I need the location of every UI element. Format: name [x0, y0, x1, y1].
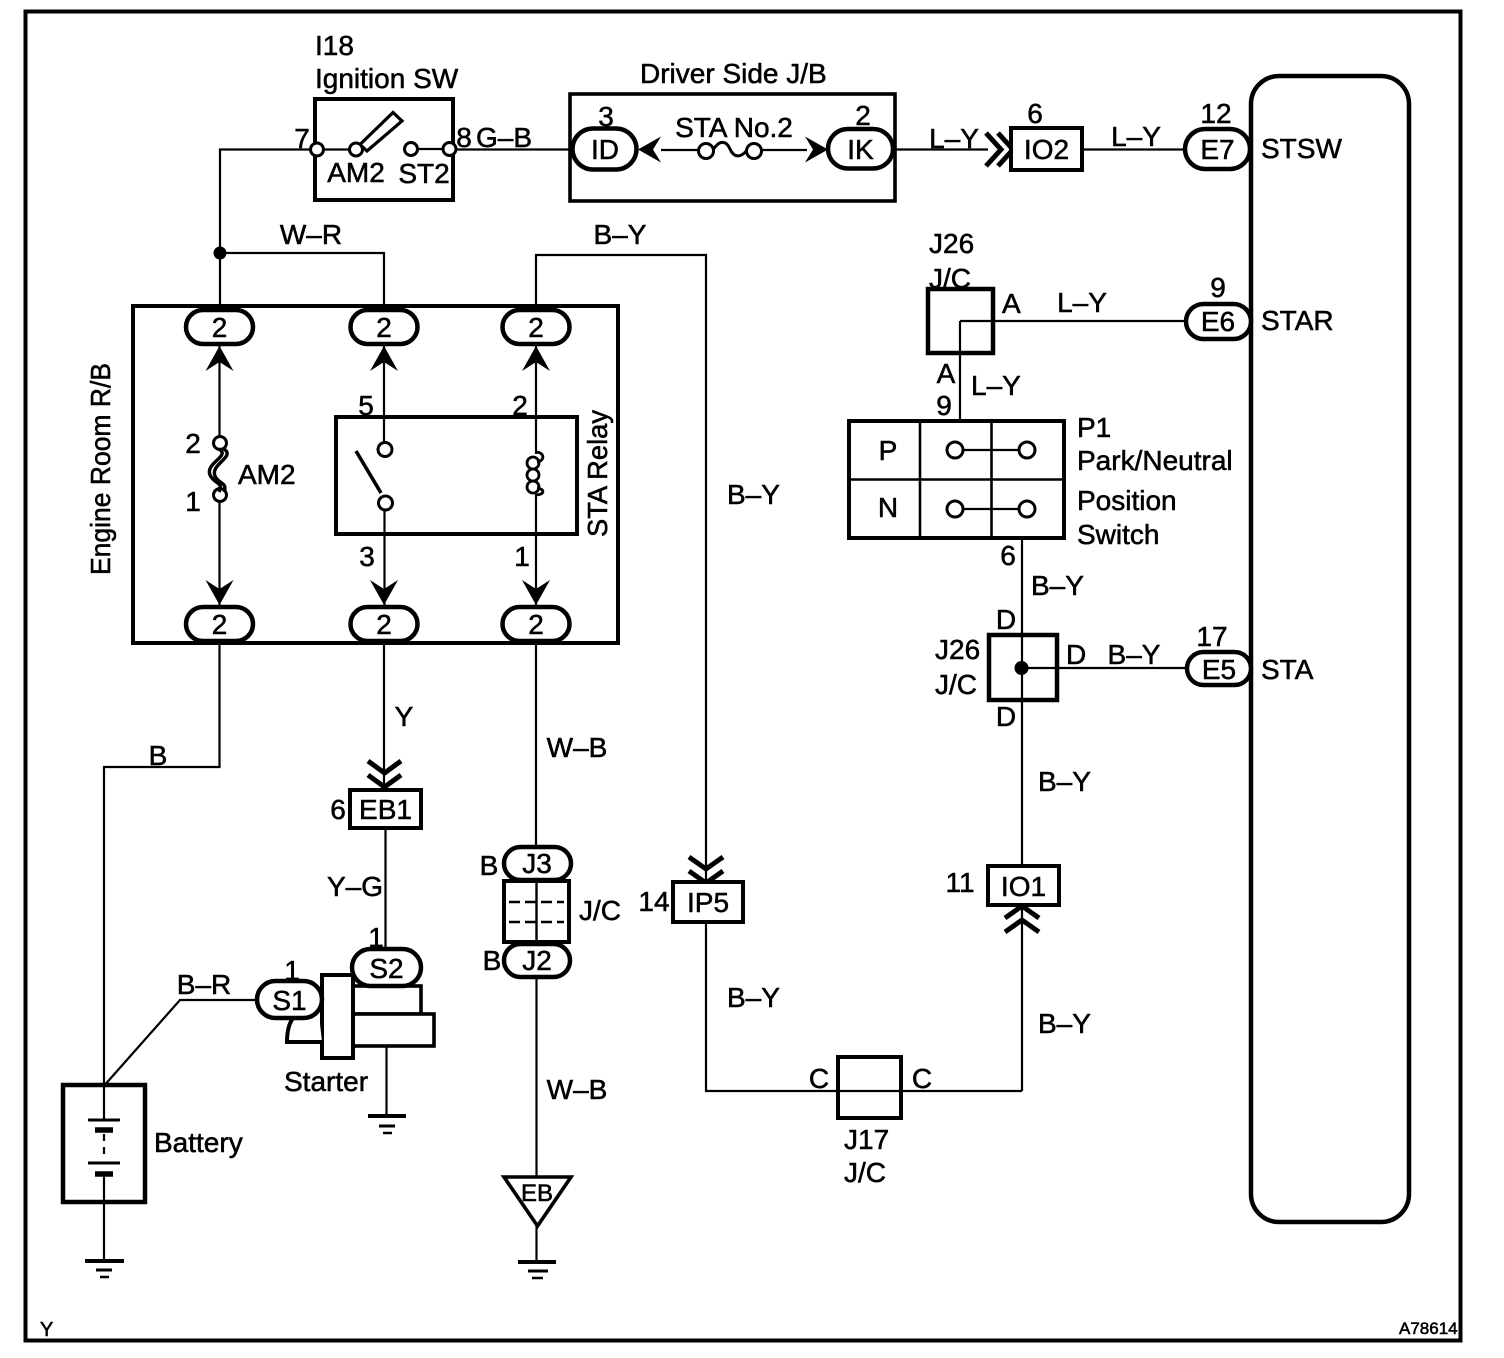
Driver Side J/B box	[570, 58, 895, 201]
junction block J/C (J3/J2)	[504, 881, 621, 942]
ground EB triangle	[504, 1177, 571, 1226]
connector ID pin 3	[573, 101, 637, 170]
svg-text:IO2: IO2	[1024, 134, 1069, 165]
wire ERB column3 lower	[535, 494, 537, 607]
svg-text:A: A	[1002, 288, 1021, 319]
svg-text:14: 14	[638, 886, 669, 917]
svg-text:2: 2	[528, 609, 544, 640]
connector E5 pin 17	[1187, 621, 1251, 685]
svg-text:IP5: IP5	[687, 887, 729, 918]
svg-text:W–B: W–B	[547, 732, 608, 763]
relay coil	[527, 452, 543, 495]
svg-text:2: 2	[212, 609, 228, 640]
svg-text:Battery: Battery	[154, 1127, 243, 1158]
svg-text:7: 7	[294, 123, 310, 154]
svg-text:EB1: EB1	[359, 794, 412, 825]
wire ERB column3 upper (relay coil feed)	[535, 346, 537, 454]
down arrow col3	[522, 580, 550, 605]
relay contact switch	[356, 443, 393, 511]
svg-text:3: 3	[598, 101, 614, 132]
svg-text:9: 9	[936, 390, 952, 421]
ECU block	[1251, 76, 1409, 1222]
relay STA box	[336, 410, 613, 537]
wire from ignition pin7 down to junction	[220, 150, 311, 311]
connector E6 pin 9	[1186, 272, 1251, 339]
svg-text:J26: J26	[935, 634, 980, 665]
arrow at IK	[805, 137, 828, 163]
down arrow col2	[370, 580, 398, 605]
svg-text:6: 6	[330, 794, 346, 825]
arrow at ID	[638, 137, 661, 163]
svg-text:C: C	[809, 1063, 829, 1094]
wire B from ERB column1 to battery	[104, 641, 220, 1120]
connector EB1 pin 6	[330, 790, 421, 828]
wire battery internal dashed	[103, 1134, 105, 1160]
svg-text:IK: IK	[847, 134, 874, 165]
svg-text:I18: I18	[315, 30, 354, 61]
label P1 Park/Neutral Position Switch	[1077, 412, 1233, 550]
svg-text:J3: J3	[522, 848, 552, 879]
svg-text:2: 2	[528, 312, 544, 343]
svg-text:2: 2	[376, 312, 392, 343]
ignition switch I18 box	[315, 30, 459, 200]
connector chevrons into IO2	[986, 133, 1013, 166]
connector oval 2 bottom col2	[351, 607, 418, 641]
starter motor body	[284, 975, 434, 1097]
wire J26 down to P1 pin 9	[959, 321, 961, 421]
junction block J26 J/C upper	[928, 228, 993, 353]
svg-text:5: 5	[358, 390, 374, 421]
svg-text:E6: E6	[1201, 306, 1235, 337]
svg-text:ID: ID	[591, 134, 619, 165]
connector S1	[257, 981, 322, 1018]
svg-text:2: 2	[855, 100, 871, 131]
svg-text:J/C: J/C	[579, 895, 621, 926]
battery	[63, 1085, 243, 1202]
svg-text:B: B	[149, 740, 168, 771]
wire J26 J/C to E5 (B-Y)	[1022, 667, 1187, 669]
svg-text:W–B: W–B	[547, 1074, 608, 1105]
up arrow col3	[522, 346, 550, 371]
connector oval 2 bottom col3	[503, 607, 570, 641]
svg-text:1: 1	[514, 541, 530, 572]
svg-text:B–Y: B–Y	[1038, 1008, 1091, 1039]
svg-text:17: 17	[1196, 621, 1227, 652]
svg-text:9: 9	[1210, 272, 1226, 303]
svg-text:B–Y: B–Y	[727, 479, 780, 510]
connector chevrons above EB1	[368, 761, 401, 787]
svg-text:B–Y: B–Y	[727, 982, 780, 1013]
svg-text:J2: J2	[522, 945, 552, 976]
svg-text:Position: Position	[1077, 485, 1177, 516]
svg-text:P1: P1	[1077, 412, 1111, 443]
wire fuse to IK arrow	[761, 149, 807, 151]
wire ERB column1 upper (AM2 fuse feed)	[218, 346, 220, 437]
svg-text:D: D	[1066, 639, 1086, 670]
svg-text:E5: E5	[1202, 654, 1236, 685]
svg-text:L–Y: L–Y	[1111, 121, 1161, 152]
svg-text:L–Y: L–Y	[1057, 287, 1107, 318]
connector chevrons below IO1	[1005, 906, 1039, 932]
svg-text:C: C	[912, 1063, 932, 1094]
svg-text:Park/Neutral: Park/Neutral	[1077, 445, 1233, 476]
svg-text:Y: Y	[395, 701, 414, 732]
svg-text:AM2: AM2	[327, 157, 385, 188]
wire ignition internal ST2 to pin8	[417, 148, 443, 150]
wire ignition internal pin7 to AM2 contact	[324, 148, 350, 150]
svg-text:EB: EB	[521, 1180, 553, 1207]
svg-text:11: 11	[945, 867, 974, 898]
connector IO2 pin 6	[1011, 98, 1082, 170]
svg-text:B: B	[483, 945, 502, 976]
svg-text:E7: E7	[1200, 134, 1234, 165]
up arrow col2	[370, 346, 398, 371]
svg-text:Y–G: Y–G	[327, 871, 383, 902]
svg-text:AM2: AM2	[238, 459, 296, 490]
connector oval 2 bottom col1	[186, 607, 253, 641]
svg-text:ST2: ST2	[398, 158, 449, 189]
svg-text:2: 2	[185, 428, 201, 459]
pin AM2 contact	[327, 143, 385, 188]
svg-text:B–Y: B–Y	[1038, 766, 1091, 797]
svg-text:P: P	[879, 435, 898, 466]
connector IP5 pin 14	[673, 882, 743, 922]
svg-text:G–B: G–B	[476, 122, 532, 153]
wire G-B pin8 to ID	[456, 148, 572, 150]
wire Y from ERB column2 to EB1	[383, 641, 385, 790]
pin ST2 contact	[398, 143, 449, 190]
fuse STA No.2	[675, 112, 793, 159]
ground symbol below EB	[518, 1262, 556, 1278]
svg-text:A78614: A78614	[1399, 1319, 1458, 1338]
wire W-B from ERB column3 to J3	[535, 641, 537, 847]
connector IK pin 2	[828, 100, 893, 169]
svg-text:STAR: STAR	[1261, 305, 1334, 336]
wire battery negative to ground	[103, 1174, 105, 1261]
connector chevrons above IP5	[689, 857, 723, 883]
wire J17 to IO1 corner	[901, 1090, 1022, 1092]
ground symbol below battery	[85, 1261, 124, 1277]
wire J26 to E6 (L-Y)	[960, 320, 1186, 322]
wire W-R horizontal to middle column	[220, 253, 384, 310]
wire starter to ground	[385, 1046, 387, 1116]
Engine Room R/B box	[85, 306, 618, 643]
svg-text:W–R: W–R	[280, 219, 342, 250]
svg-text:12: 12	[1200, 98, 1231, 129]
wire ERB column2 upper (relay contact feed)	[383, 346, 385, 443]
wire ERB column1 lower	[218, 501, 220, 607]
park/neutral position switch P1 box	[849, 421, 1064, 538]
svg-text:J/C: J/C	[844, 1157, 886, 1188]
ignition switch lever	[360, 113, 402, 152]
fuse AM2	[185, 428, 295, 517]
svg-text:S1: S1	[272, 985, 306, 1016]
svg-text:L–Y: L–Y	[929, 123, 979, 154]
svg-text:Ignition SW: Ignition SW	[315, 63, 459, 94]
connector IO1 pin 11	[945, 866, 1059, 905]
wire ERB column2 lower	[383, 510, 385, 607]
svg-text:B–Y: B–Y	[1031, 570, 1084, 601]
connector oval 2 top col3	[503, 310, 570, 344]
wire ID arrow to fuse	[661, 149, 699, 151]
svg-text:STSW: STSW	[1261, 133, 1342, 164]
connector E7 pin 12	[1185, 98, 1250, 169]
wire B-Y from right column up and right then down to IP5	[536, 255, 706, 882]
P row contacts	[947, 442, 1035, 458]
node junction dot in J26	[1015, 661, 1029, 675]
svg-text:J17: J17	[844, 1124, 889, 1155]
svg-text:Starter: Starter	[284, 1066, 368, 1097]
svg-text:6: 6	[1000, 540, 1016, 571]
svg-text:J26: J26	[929, 228, 974, 259]
svg-text:STA No.2: STA No.2	[675, 112, 793, 143]
svg-text:S2: S2	[369, 953, 403, 984]
connector J2	[483, 944, 570, 977]
svg-text:N: N	[878, 492, 898, 523]
wire B-R from battery to S1	[105, 1000, 257, 1085]
wire Y-G from EB1 to S2	[384, 828, 386, 949]
svg-text:J/C: J/C	[929, 263, 971, 294]
connector oval 2 top col2	[351, 310, 418, 344]
svg-text:B: B	[480, 850, 499, 881]
svg-text:6: 6	[1027, 98, 1043, 129]
svg-text:STA Relay: STA Relay	[582, 410, 613, 537]
svg-text:A: A	[937, 358, 956, 389]
svg-text:Switch: Switch	[1077, 519, 1159, 550]
svg-text:Driver Side J/B: Driver Side J/B	[640, 58, 827, 89]
svg-text:B–R: B–R	[177, 969, 231, 1000]
N row contacts	[947, 501, 1035, 517]
pin 7	[294, 123, 323, 156]
connector S2	[352, 949, 421, 986]
svg-text:8: 8	[456, 122, 472, 153]
svg-text:D: D	[996, 604, 1016, 635]
svg-text:Engine Room R/B: Engine Room R/B	[85, 363, 116, 575]
ground symbol below starter	[368, 1116, 406, 1133]
svg-text:2: 2	[212, 312, 228, 343]
svg-text:L–Y: L–Y	[971, 370, 1021, 401]
wire L-Y IO2 to E7	[1082, 148, 1185, 150]
svg-text:B–Y: B–Y	[1108, 639, 1161, 670]
svg-text:1: 1	[185, 486, 201, 517]
svg-text:2: 2	[512, 390, 528, 421]
svg-text:D: D	[996, 701, 1016, 732]
connector J3	[480, 847, 571, 881]
svg-text:Y: Y	[40, 1319, 53, 1341]
wire W-B from J2 to EB triangle	[535, 977, 537, 1177]
svg-text:IO1: IO1	[1001, 871, 1046, 902]
svg-text:B–Y: B–Y	[594, 219, 647, 250]
junction block J26 J/C lower	[935, 634, 1057, 700]
svg-text:STA: STA	[1261, 654, 1314, 685]
down arrow col1	[206, 580, 234, 605]
svg-text:3: 3	[359, 541, 375, 572]
svg-text:J/C: J/C	[935, 669, 977, 700]
node junction dot at W-R branch	[214, 247, 227, 260]
up arrow col1	[206, 346, 234, 371]
junction block J17 J/C	[838, 1057, 901, 1188]
wire P1 pin6 down through J26 J/C to IO1 (B-Y)	[1021, 538, 1023, 1091]
wire EB triangle to ground	[535, 1226, 537, 1261]
svg-text:2: 2	[376, 609, 392, 640]
pin 8	[443, 122, 472, 156]
connector oval 2 top col1	[186, 310, 253, 344]
wire IP5 down and right to J17	[706, 922, 901, 1091]
wire L-Y IK to connector chevrons	[893, 148, 988, 150]
